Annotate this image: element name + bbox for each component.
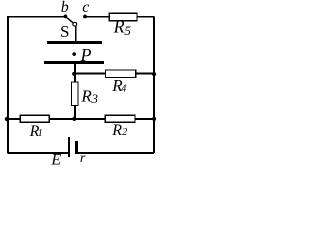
junction dot below capacitor <box>72 72 76 76</box>
resistor R4 box <box>106 70 136 77</box>
wire middle row with R1 R2 <box>8 118 154 120</box>
svg-text:3: 3 <box>91 91 99 106</box>
resistor R1 box <box>20 115 49 122</box>
battery E short thick plate <box>75 141 78 154</box>
wire bottom-left to battery <box>8 152 68 154</box>
battery E long plate <box>68 137 70 157</box>
wire bottom-right from battery <box>77 152 154 154</box>
svg-text:4: 4 <box>121 84 126 95</box>
node b junction dot <box>64 15 68 19</box>
wire top-right from node c to corner <box>85 16 155 18</box>
svg-text:S: S <box>60 22 69 41</box>
junction dot left border at middle row <box>5 117 9 121</box>
svg-text:R: R <box>113 16 125 36</box>
resistor R5 box <box>109 13 137 20</box>
wire capacitor bottom plate down through R3 to middle row <box>74 62 76 119</box>
wire top-left from corner to node b <box>7 16 66 18</box>
wire right border <box>153 17 155 153</box>
capacitor P bottom plate <box>44 61 104 64</box>
resistor R2 box <box>105 115 135 122</box>
switch S lever from b to contact <box>65 16 73 23</box>
capacitor P top plate <box>47 41 102 44</box>
svg-text:c: c <box>82 0 89 16</box>
svg-text:2: 2 <box>122 127 127 138</box>
switch S contact circle <box>73 22 77 26</box>
svg-text:b: b <box>61 0 69 16</box>
junction dot right border at R4 row <box>152 72 156 76</box>
svg-text:5: 5 <box>124 23 131 38</box>
node c junction dot <box>83 15 87 19</box>
point P dot inside capacitor <box>72 52 76 56</box>
resistor R3 box <box>72 82 79 105</box>
svg-text:E: E <box>50 151 61 165</box>
svg-text:P: P <box>80 45 92 65</box>
wire switch contact down to capacitor top plate <box>75 26 77 42</box>
svg-text:1: 1 <box>38 128 43 139</box>
wire left border <box>7 16 9 153</box>
wire R4 row <box>74 73 154 75</box>
svg-text:r: r <box>80 151 86 165</box>
junction dot R3 bottom at middle row <box>72 117 76 121</box>
svg-text:R: R <box>111 122 122 139</box>
junction dot right border at middle row <box>152 117 156 121</box>
